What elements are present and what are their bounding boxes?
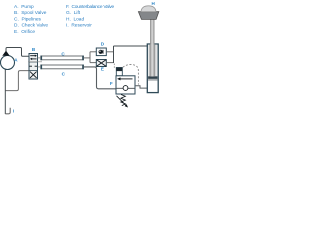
- wire pump suction down: [4, 70, 6, 115]
- spool valve centre cell stubs: [29, 65, 37, 67]
- orifice E box: [96, 60, 106, 67]
- piston: [148, 76, 157, 80]
- svg-text:I: I: [13, 109, 14, 114]
- counterbalance pilot cap: [116, 68, 122, 76]
- wire check valve D to bus: [106, 51, 113, 53]
- svg-text:E. Orifice: E. Orifice: [14, 29, 35, 35]
- wire pump outlet to spool valve: [6, 48, 29, 57]
- svg-text:F. Counterbalance Valve: F. Counterbalance Valve: [66, 4, 115, 10]
- wire tee to check valve D: [90, 51, 96, 53]
- svg-text:C. Pipelines: C. Pipelines: [14, 16, 42, 22]
- pilot stub (dashed) bus to cap: [113, 64, 115, 69]
- wire orifice E to bus: [106, 62, 113, 64]
- wire spool valve return to tank line: [5, 71, 29, 91]
- wire valve to bottom pipe: [38, 66, 41, 68]
- node bus vertical: [113, 46, 115, 63]
- wire bottom pipe to counterbalance valve: [84, 67, 116, 89]
- svg-text:H. Load: H. Load: [66, 16, 84, 22]
- check valve D box: [96, 48, 106, 56]
- wire bus to cylinder top port: [114, 45, 148, 47]
- wire tee to orifice E: [90, 62, 96, 64]
- spool valve arrows (top cell): [30, 55, 37, 61]
- svg-text:A. Pump: A. Pump: [14, 4, 34, 10]
- wire top pipe to D/E tee: [84, 57, 90, 59]
- wire counterbalance valve to cylinder: [135, 86, 148, 88]
- wire valve to top pipe: [38, 57, 41, 59]
- spring below counterbalance valve: [121, 95, 126, 106]
- adjustment arrow through spring: [117, 96, 129, 108]
- svg-text:I. Reservoir: I. Reservoir: [66, 23, 92, 29]
- spool valve B body: [29, 54, 38, 80]
- svg-text:E: E: [101, 67, 104, 72]
- load H pan: [138, 12, 158, 20]
- pilot line (dashed) cap to load side: [123, 65, 139, 85]
- spool valve crossed cell (X): [30, 72, 37, 78]
- counterbalance valve F body: [116, 76, 135, 94]
- svg-text:B. Spool Valve: B. Spool Valve: [14, 10, 47, 16]
- svg-text:F: F: [110, 81, 113, 86]
- load H dome: [141, 6, 156, 12]
- svg-text:D. Check Valve: D. Check Valve: [14, 23, 48, 29]
- svg-text:G. Lift: G. Lift: [66, 10, 81, 16]
- pipeline C top: [41, 56, 84, 61]
- lift cylinder G: [147, 44, 158, 93]
- pipeline C bottom: [41, 65, 84, 70]
- spool valve pass line: [28, 61, 42, 63]
- reservoir I: [5, 108, 10, 114]
- pump A: [1, 51, 15, 70]
- node tee to check valve and orifice: [89, 52, 91, 63]
